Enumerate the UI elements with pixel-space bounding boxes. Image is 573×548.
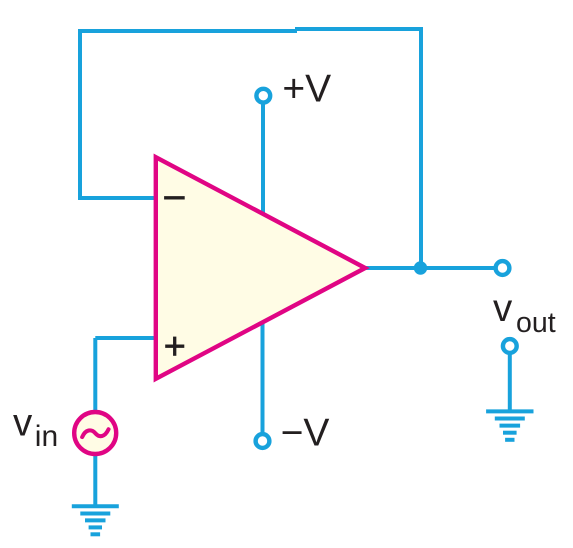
svg-text:+V: +V [282,68,331,111]
svg-text:v: v [493,287,513,330]
svg-text:in: in [35,420,58,453]
svg-text:−V: −V [281,412,330,455]
svg-text:out: out [516,307,556,339]
svg-text:v: v [13,402,33,445]
